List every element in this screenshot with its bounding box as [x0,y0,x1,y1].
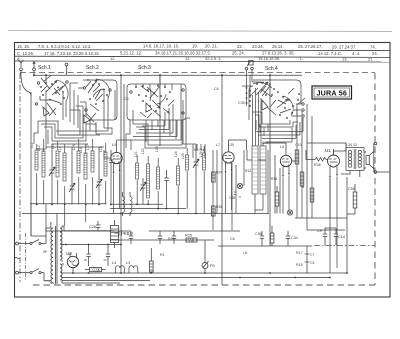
svg-text:25.14.: 25.14. [272,44,284,49]
coil L6 [63,153,66,181]
ground bus 1 [62,272,347,274]
wire antenna down [21,71,31,96]
wire V2 heater to bus [226,172,232,214]
svg-text:Sch.1: Sch.1 [38,65,51,71]
antenna Y symbol [19,60,24,71]
svg-text:C36: C36 [238,101,245,105]
wire long vertical B [159,75,161,146]
mains switch upper [18,228,51,245]
svg-text:C59: C59 [348,187,355,191]
capacitor C31 [286,231,298,246]
svg-text:L23: L23 [155,146,159,152]
page top edge [8,31,392,32]
svg-text:Sch.3: Sch.3 [138,65,151,71]
mid coil M3 [157,167,160,189]
resistor R40 vertical [295,150,299,164]
label Sch.3 [138,65,151,71]
svg-text:19.: 19. [192,44,198,49]
mains plug [15,233,26,281]
bus long y213 [22,213,269,215]
wire vertical x236 [236,150,280,214]
wire vertical E2 [307,229,345,231]
wire left of V1 [104,140,131,158]
resistor R35 vertical [270,226,274,246]
transformer secondary HT winding [60,228,62,260]
right cluster verticals [297,104,312,218]
wire Sch.3 nested loop 2 [136,118,190,148]
wire left cluster tops [37,139,106,160]
capacitor C28 [229,169,277,200]
label L4 L3 [112,261,130,265]
capacitor C12 [115,231,134,236]
table row 1 text [17,44,376,50]
choke coil pair A [123,192,133,216]
label U1 [325,148,331,153]
wire Sch.1 contacts drop [63,83,78,128]
wire rail Sch.1 to Sch.2 [46,131,104,147]
border frame [15,43,391,298]
switch Sch.2 box outline [83,80,117,120]
resistor R24 [212,171,223,183]
wire Sch.2 drops [90,90,115,134]
svg-text:L15: L15 [72,144,76,150]
label P9 [210,264,215,268]
svg-text:L12: L12 [37,145,41,151]
wire Sch.1 nested loop 2 [41,106,83,138]
rectifier U3 [67,253,78,273]
label misc top [124,87,302,149]
svg-text:13.: 13. [342,56,348,61]
wire Sch.4 rails low [255,118,303,142]
wire anode U1 to transformer [334,148,347,156]
resistor R19 vertical [310,188,314,202]
wire vertical D2 [274,155,276,214]
transformer primary winding [51,228,53,283]
svg-text:R1: R1 [160,253,165,257]
node top wire dots [33,74,271,76]
wire phono drop [247,73,253,86]
coil L8 [84,153,87,179]
wire speaker terminal top [364,142,377,173]
svg-text:15. 16.: 15. 16. [17,44,30,49]
wire Sch.2 nested loop [86,124,112,134]
tube U1 output [328,149,340,179]
capacitor C43 electrolytic [84,245,91,267]
mid coil M2 [147,164,150,198]
wire antenna2 to switch [33,71,35,76]
wire Sch.3 right edge [130,84,181,140]
wire rectifier bus [62,244,122,246]
svg-text:L16: L16 [79,147,83,153]
terminal E [65,63,68,75]
switch Sch.4 wafer A [253,82,272,97]
wire long vertical A [120,75,122,213]
svg-text:Sch.4: Sch.4 [265,66,278,72]
switch Sch.4 right contacts [292,103,304,117]
wire long vertical E [306,104,308,230]
wire Sch.3 nested loop 1 [133,120,182,145]
mid comp M6 [203,153,206,170]
wire bus y236 left [31,231,131,236]
wire V2 anode riser [229,140,247,150]
svg-text:U1: U1 [325,148,331,153]
transformer taps [44,214,64,284]
svg-text:7.8. 1. 9.3.4.9.14. 4.12.: 7.8. 1. 9.3.4.9.14. 4.12. 12.2. [38,44,92,49]
svg-text:L25: L25 [181,153,185,159]
switch Sch.2 wafer A [86,79,110,111]
resistor R28 grid [310,158,328,162]
tube V1 [111,147,122,175]
bus mid cluster upper [110,203,163,205]
label SF [43,250,48,254]
mains switch lower [18,269,51,281]
svg-text:C5: C5 [124,232,129,236]
mid trimmer C48 [193,152,199,175]
label C59 [348,187,355,191]
switch Sch.3 box outline [127,84,186,120]
svg-text:R17: R17 [296,251,303,255]
switch Sch.3 wafer A [141,86,166,108]
svg-text:C6: C6 [214,87,219,91]
diode circle X 2 [287,210,292,215]
svg-text:5F: 5F [43,250,48,254]
mid cap C46 [164,170,169,188]
svg-text:C28: C28 [229,196,235,200]
svg-text:50 Hz: 50 Hz [194,147,204,152]
wire sch3 right drop [183,100,196,152]
wire transformer B+ [307,143,346,148]
svg-text:L6: L6 [243,251,247,255]
svg-text:U3: U3 [66,251,72,256]
wire bus y231 [149,230,240,232]
svg-text:L35: L35 [228,143,234,147]
svg-text:20. 21.: 20. 21. [205,44,218,49]
svg-text:L8: L8 [280,145,284,149]
wire right vertical x330 [329,178,331,218]
wire long vertical D [269,75,271,246]
switch coupling dashed line [20,72,375,74]
label 50Hz [194,147,204,152]
svg-text:L11: L11 [30,142,34,148]
resistor R46 [85,268,106,272]
table row line 3 [15,61,391,62]
svg-text:C55: C55 [255,232,262,236]
svg-text:29. 27.24.37.: 29. 27.24.37. [332,44,356,49]
wire IF can T2 to V3 [247,150,266,160]
wire osc can drops [193,144,205,158]
switch Sch.4 wafer B [277,96,293,116]
wire right dashdot y245 [314,245,375,247]
IF can T2 winding B [260,146,266,194]
svg-text:74.: 74. [370,45,376,50]
tube V2 [223,146,234,174]
wire Sch.1 nested loop 1 [38,110,80,135]
coil L4 [116,266,125,273]
wire right vertical x347 [346,177,348,273]
switch Sch.4 extra strokes [252,86,305,116]
svg-text:23.24.: 23.24. [252,44,264,49]
node left bus dots [36,204,112,206]
capacitor C26 [89,221,101,231]
resistor R26 [212,205,223,216]
switch Sch.4 box outline [242,80,301,120]
switch Sch.3 contact stubs [136,84,174,118]
svg-text:R24: R24 [216,171,222,175]
wire mid cluster tops [137,146,204,167]
svg-text:R16: R16 [271,177,277,181]
svg-text:34.16.17.21.26.16.26.32.17.5.: 34.16.17.21.26.16.26.32.17.5. [155,50,211,55]
wire Sch.3 riser left [126,110,133,148]
chassis dash-dot left vertical [19,73,21,282]
svg-text:25. 24.: 25. 24. [232,51,245,56]
wire V3 anode riser [263,143,286,149]
svg-text:22.: 22. [237,44,243,49]
output transformer L34 [346,148,364,171]
svg-text:5.21.12. 12.: 5.21.12. 12. [120,51,142,56]
label R28 [314,163,321,167]
wire Sch.4 drops [256,120,268,136]
mid coil M1 [136,163,139,179]
tube V3 [280,149,291,178]
coil L10 [104,152,107,176]
svg-text:L13: L13 [51,143,55,149]
wire Sch.1 nested loop 3 [44,102,86,141]
svg-text:L26: L26 [199,151,203,157]
label Sch.4 [265,66,278,72]
capacitor C15 [158,231,162,244]
svg-text:L17: L17 [86,144,90,150]
label Sch.1 [38,65,51,71]
capacitor C5 [124,231,133,244]
wire V3 to R28 [292,150,310,188]
wire x307 drop to bus [305,246,315,273]
wire vertical A3 [123,84,125,209]
wire vertical x217 [213,150,232,231]
svg-text:L14: L14 [58,146,62,152]
table row 3 text [17,56,374,62]
coil L1 [35,150,38,170]
svg-text:C14: C14 [338,235,345,239]
wire Sch.3 drops [146,120,176,142]
svg-text:C26: C26 [89,225,96,229]
switch Sch.1 contact dots [40,82,65,105]
svg-text:L4: L4 [112,261,116,265]
wire left cluster bottoms [37,172,111,205]
wire left bus drops [31,90,86,236]
svg-text:JURA 56: JURA 56 [316,89,347,98]
wire Sch.4 nested loop 1 [252,112,290,124]
label scatter mid cluster [134,146,203,159]
wire heater leads [62,281,150,284]
wire mid cluster bottoms [137,171,204,214]
svg-text:R12: R12 [245,169,251,173]
wire transformer bottom [341,171,360,178]
wire right bus y218 [295,217,347,219]
svg-text:C7: C7 [310,253,314,257]
coil L3 [129,266,138,273]
wire V1 drop [114,173,120,214]
svg-text:17.16. 7.23.16. 23.26.3.12.15.: 17.16. 7.23.16. 23.26.3.12.15. [44,51,100,56]
svg-text:21.: 21. [368,56,374,61]
wire Sch.1 bottom drop [34,121,48,144]
svg-text:L21: L21 [134,151,138,157]
mid trimmer C44 [140,178,146,200]
wire speaker to frame [377,171,390,173]
svg-text:C31: C31 [291,236,298,240]
ground bus 2 [62,277,330,279]
wire bus y240 [110,239,214,241]
switch Sch.4 contact dots [256,82,300,119]
svg-text:L18: L18 [99,146,103,152]
svg-text:14.12. 7.4.C.: 14.12. 7.4.C. [318,51,342,56]
speaker [364,152,374,169]
svg-text:4. 4.: 4. 4. [352,51,360,56]
svg-text:14.8. 16.17. 18. 16.: 14.8. 16.17. 18. 16. [143,44,179,49]
svg-text:L22: L22 [141,148,145,154]
svg-text:R18: R18 [296,263,303,267]
bus mid cluster lower [110,208,186,210]
wire sec top lead [64,230,115,232]
resistor R55 vertical [347,184,357,214]
resistor R39 vertical [300,172,304,186]
capacitor C9 group [317,228,345,246]
IF can T2 winding A [252,146,258,194]
switch Sch.2 terminals [78,87,111,111]
svg-text:C4: C4 [124,97,129,101]
switch Sch.1 terminal circles [35,81,68,105]
label L34 [346,143,357,147]
table row line 2 [15,56,391,57]
wire main top bus [34,74,302,76]
svg-text:L24: L24 [174,151,178,157]
choke block R47 [111,220,119,248]
capacitor C55 [255,231,264,246]
svg-text:P9: P9 [210,264,215,268]
svg-text:R15: R15 [168,237,175,241]
coil L9a [91,151,94,172]
JURA 56 nameplate [312,86,352,99]
resistor R25 [185,234,197,243]
svg-text:C3: C3 [310,261,314,265]
table row 2 text [17,50,378,56]
svg-text:R25: R25 [185,234,192,238]
switch Sch.2 contact dots [87,79,108,105]
transformer heater winding [60,264,62,280]
switch Sch.4 contact column left [246,87,251,107]
label U3 [66,251,72,256]
switch Sch.3 terminals [130,75,184,114]
svg-text:L.: L. [300,56,303,61]
svg-text:C10: C10 [295,143,302,147]
node mid bus dots [120,203,197,214]
svg-text:R26: R26 [216,205,222,209]
svg-text:L34 12: L34 12 [346,143,357,147]
svg-text:15.16.16.36.: 15.16.16.36. [258,56,280,61]
svg-text:R28: R28 [314,163,321,167]
mid coil M4 [177,166,180,185]
svg-text:L7: L7 [216,143,220,147]
coil L2 [42,151,45,177]
bus left cluster [30,203,107,205]
svg-text:C9: C9 [317,229,322,233]
svg-text:4s.: 4s. [50,281,55,285]
label misc bottom [50,237,303,285]
wire long vertical A2 [120,214,122,274]
svg-text:27.9.13.26. 3. 35.: 27.9.13.26. 3. 35. [262,51,295,56]
diode circle X [237,183,242,188]
resistor R44 vertical [150,248,154,273]
svg-text:C8: C8 [230,237,235,241]
svg-text:Sch.2: Sch.2 [86,65,99,71]
switch Sch.1 wafer B arrow [40,96,56,116]
wire IF T2 drops [255,194,263,214]
trimmer C38 [49,150,55,181]
label scatter left cluster [30,142,103,153]
svg-text:12.: 12. [110,56,116,61]
coil L7a [77,151,80,173]
svg-text:32.4.5. 4.: 32.4.5. 4. [205,56,222,61]
phono jack square [245,61,253,76]
node ground dots [72,272,348,278]
switch Sch.2 wafer B arrow [84,113,96,123]
mid comp C102 [186,155,189,170]
switch Sch.1 wafer A [41,75,68,103]
label L9 [112,142,117,147]
coil L5 [56,151,59,177]
svg-text:L3: L3 [126,261,130,265]
wire bus y246 [218,245,312,247]
capacitor C41 [109,150,114,172]
chassis dashed right vertical [374,73,376,285]
transformer core [56,226,57,284]
antenna terminal 2 [33,62,36,71]
wire mid risers to top [247,82,263,106]
wire IF riser band [250,75,261,146]
capacitor C44 electrolytic [104,245,111,267]
chassis dashed bottom [33,284,375,286]
switch Sch.4 arrow [262,100,276,115]
label Sch.2 [86,65,99,71]
svg-text:C90: C90 [262,141,269,145]
wire long vertical C [221,75,223,285]
resistor R27 vertical [275,186,279,214]
wire Sch.1 left drop [30,92,32,236]
wire U1 heater drop [330,177,337,274]
svg-text:12.: 12. [185,56,191,61]
capacitor C16 [172,231,176,244]
pilot lamp [202,240,209,273]
svg-text:25. 27.26.27.: 25. 27.26.27. [298,44,322,49]
trimmer C40 [69,160,75,198]
switch Sch.3 pointer arrow [146,88,161,117]
wire Sch.4 nested loop 2 [255,115,298,127]
table row line 1 [15,50,391,51]
wire V3 heater to bus [283,176,289,214]
trimmer C42 [96,158,102,196]
switch Sch.3 contact dots [135,85,171,113]
